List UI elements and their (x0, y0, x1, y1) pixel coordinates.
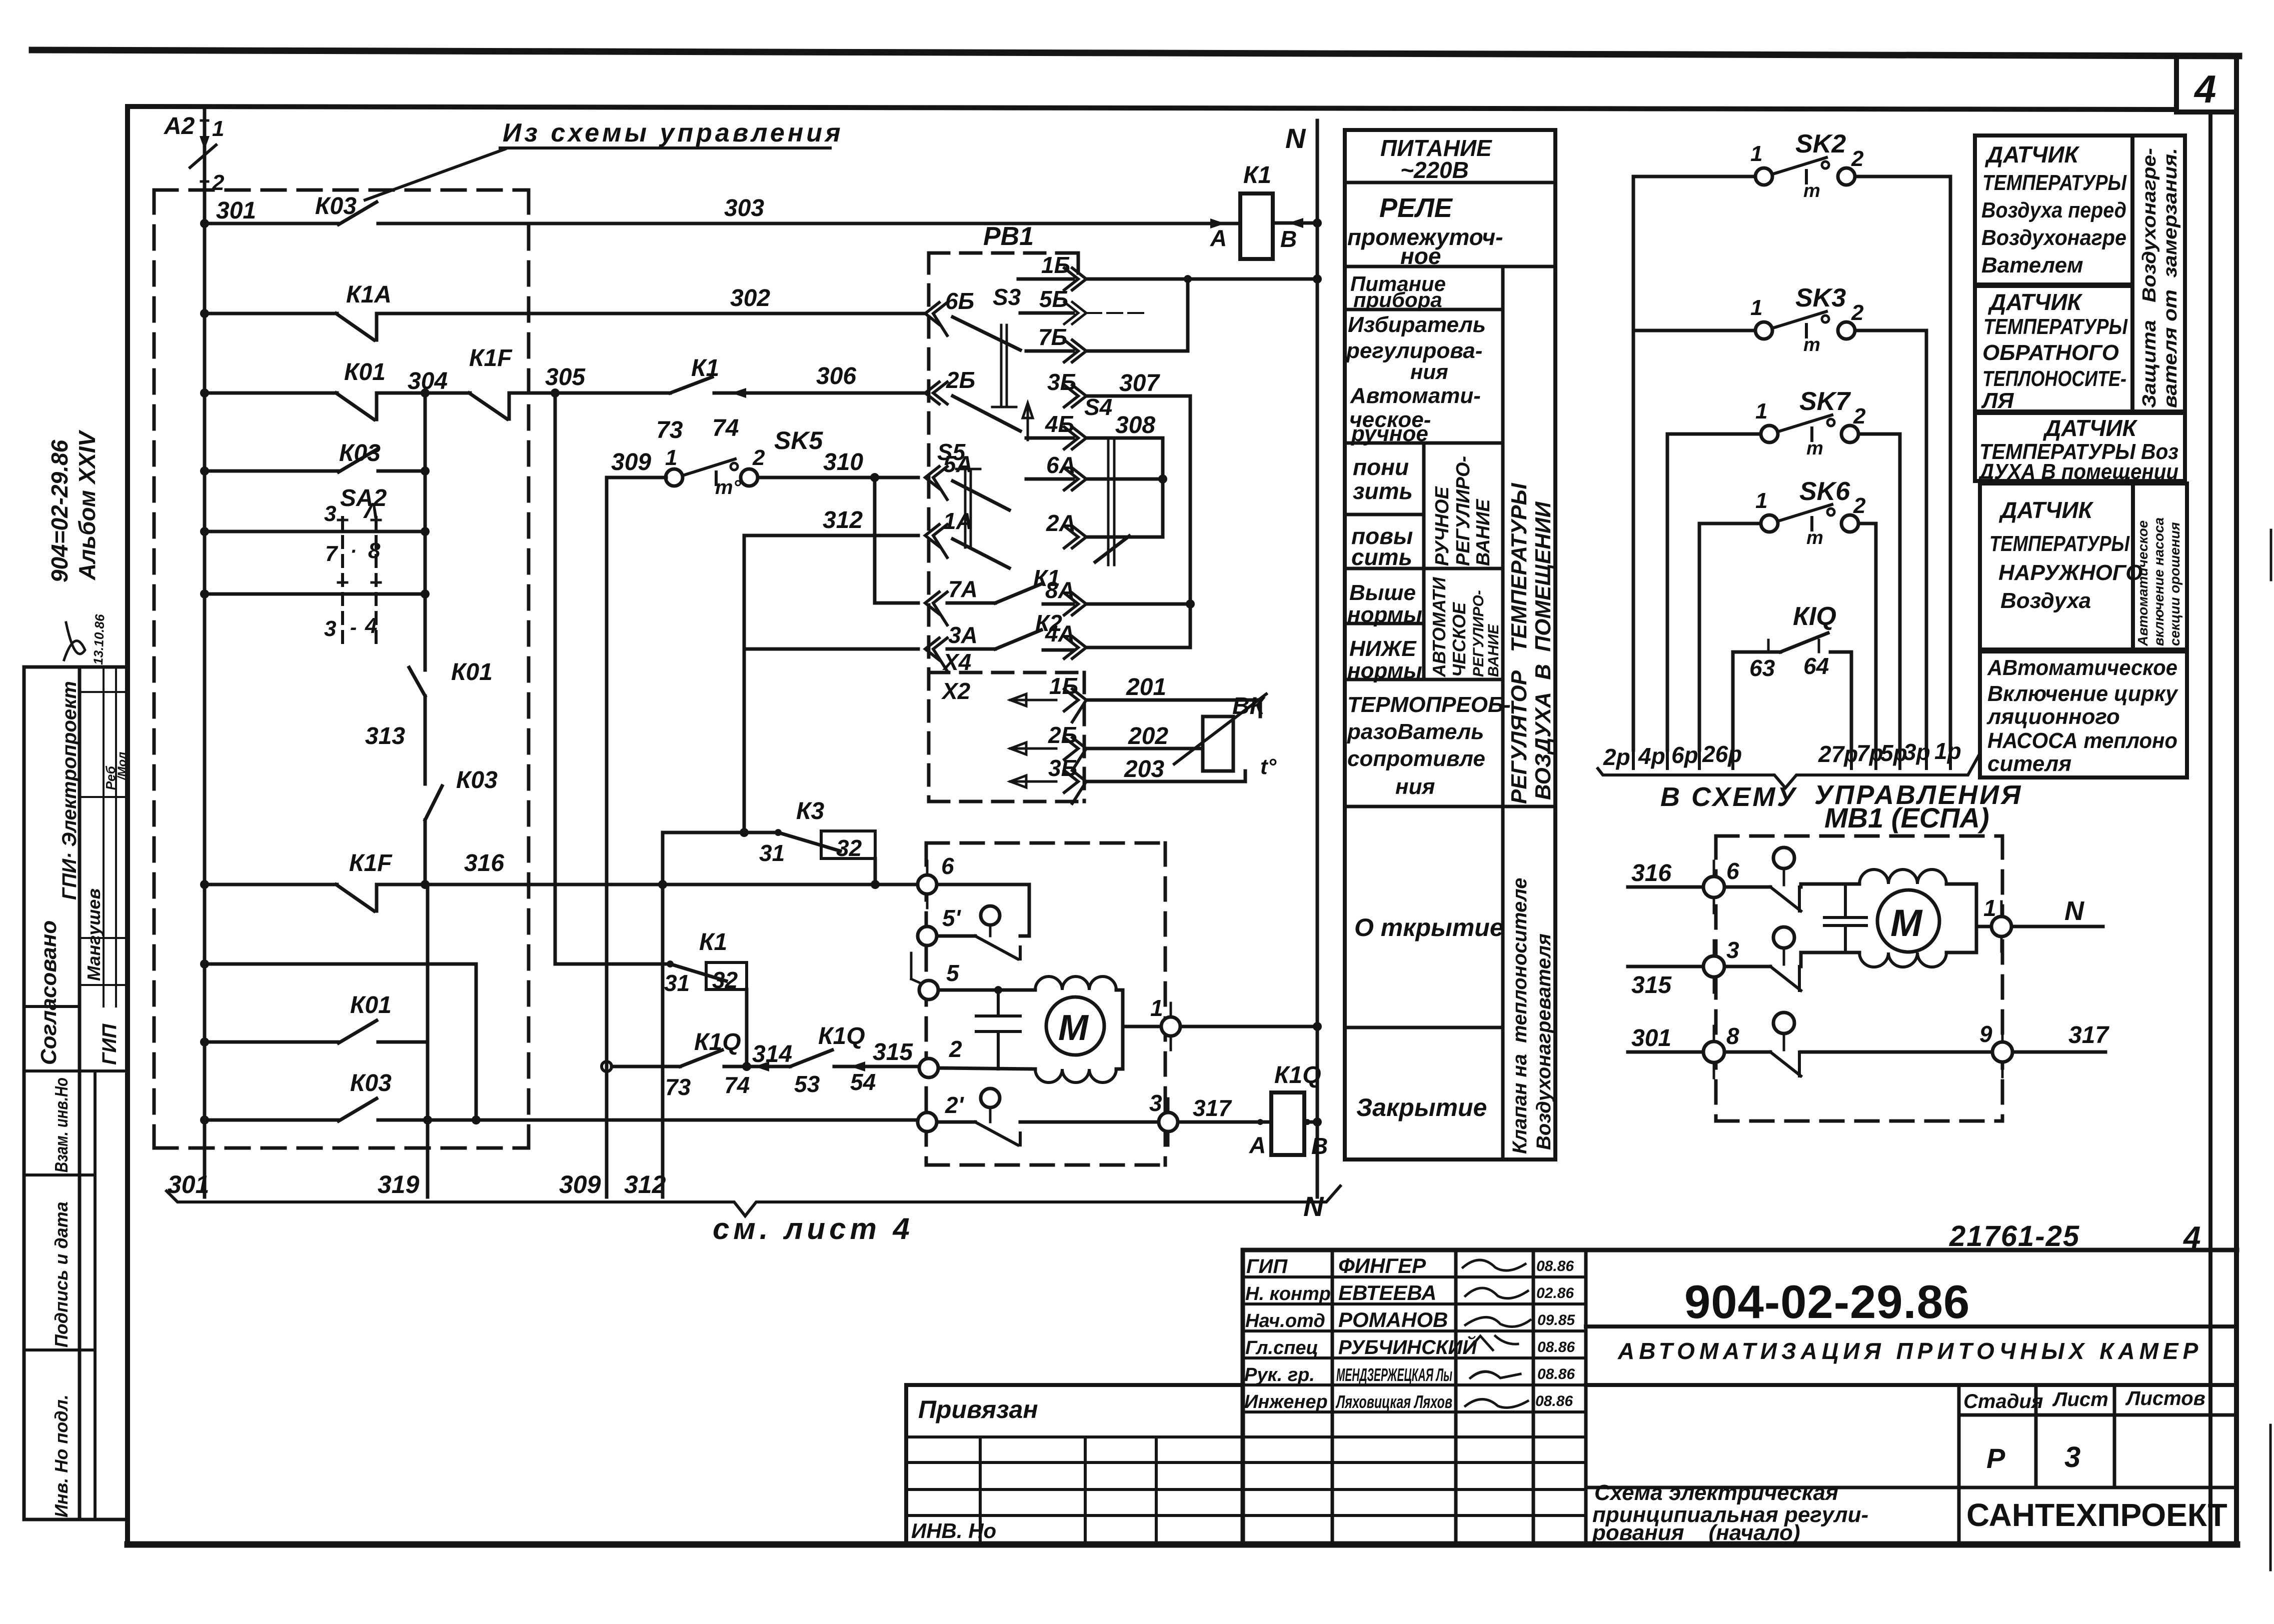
svg-text:203: 203 (1124, 756, 1164, 782)
svg-text:т°: т° (715, 476, 742, 498)
leader line to enclosure (365, 149, 505, 200)
winding top MV1 (1859, 869, 1946, 884)
svg-text:К1А: К1А (346, 281, 392, 308)
svg-text:пони: пони (1353, 454, 1409, 480)
svg-text:31: 31 (664, 970, 690, 996)
node N label bottom (1303, 1190, 1324, 1222)
thermal contact SK7 (1667, 432, 1761, 436)
svg-text:309: 309 (559, 1170, 601, 1198)
sensor box air before heater (1975, 135, 2132, 284)
svg-text:Избиратель: Избиратель (1348, 312, 1486, 337)
wire 308 loop (1086, 438, 1163, 537)
contact K03 row4 (339, 449, 377, 472)
svg-text:-: - (350, 616, 357, 638)
svg-text:Х2: Х2 (941, 678, 971, 704)
svg-text:8: 8 (368, 538, 381, 563)
connector 6B in (925, 302, 947, 335)
contact K1 7A-8A (947, 601, 995, 605)
svg-text:РВ1: РВ1 (983, 222, 1034, 251)
svg-text:ОБРАТНОГО: ОБРАТНОГО (1982, 340, 2119, 365)
svg-text:М: М (1058, 1008, 1089, 1048)
svg-text:Гл.спец: Гл.спец (1245, 1337, 1318, 1358)
svg-text:7А: 7А (948, 576, 978, 602)
svg-text:Схема электрическая: Схема электрическая (1594, 1480, 1838, 1505)
legend table frame (1345, 130, 1555, 1159)
svg-text:3Б: 3Б (1048, 755, 1077, 781)
wire row SA2 top (205, 530, 425, 533)
org name SANTEHPROEKT (1966, 1497, 2227, 1533)
svg-text:S4: S4 (1084, 394, 1112, 420)
schema name text (1592, 1480, 1868, 1545)
svg-text:рования (начало): рования (начало) (1592, 1520, 1800, 1545)
label iz shemy upravleniya (503, 118, 844, 147)
contact K1Q aux 63-64 (1733, 650, 1780, 654)
stamp margin signature (64, 622, 85, 660)
wire row 309-310 (607, 476, 666, 479)
connector 7A in (925, 592, 947, 625)
svg-text:64: 64 (1803, 653, 1829, 679)
svg-text:включение насоса: включение насоса (2151, 517, 2166, 646)
drawing frame top edge (128, 106, 2176, 109)
svg-text:309: 309 (611, 449, 651, 475)
terminal 9 MV1 (1992, 1042, 2012, 1062)
contact S3 (953, 317, 1020, 350)
svg-text:312: 312 (624, 1170, 666, 1198)
wire 317 (1178, 1120, 1271, 1124)
svg-text:SK5: SK5 (774, 426, 823, 454)
svg-text:сить: сить (1351, 544, 1412, 570)
svg-text:ЛЯ: ЛЯ (1981, 388, 2014, 413)
svg-text:ное: ное (1400, 243, 1441, 269)
terminal 1 MV1 (1976, 925, 1992, 928)
svg-text:вателя от замерзания.: вателя от замерзания. (2160, 148, 2181, 408)
svg-text:т: т (1806, 438, 1823, 459)
svg-text:1: 1 (1150, 995, 1163, 1021)
svg-text:нормы: нормы (1347, 602, 1422, 627)
svg-text:316: 316 (1631, 860, 1671, 886)
svg-text:ляционного: ляционного (1986, 704, 2120, 729)
svg-text:К1Q: К1Q (694, 1029, 741, 1055)
dashed enclosure left cabinet (154, 190, 529, 1148)
wire 6 loop (937, 884, 1029, 936)
wire row K1Q 314-315 (602, 1061, 612, 1071)
wire rail 312 lower (661, 832, 665, 1197)
stamp gip cell (24, 1006, 128, 1071)
svg-text:306: 306 (816, 363, 856, 389)
svg-text:ДАТЧИК: ДАТЧИК (1987, 289, 2083, 315)
lamp at 5prime (981, 906, 1000, 925)
svg-text:74: 74 (712, 415, 739, 441)
left margin doc number rotated (47, 429, 100, 582)
svg-text:Инженер: Инженер (1244, 1391, 1328, 1412)
svg-text:302: 302 (730, 285, 770, 311)
svg-text:РУБЧИНСКИЙ: РУБЧИНСКИЙ (1338, 1335, 1477, 1358)
svg-text:t°: t° (1260, 754, 1277, 779)
wire SK6 rails (1699, 523, 1876, 750)
svg-text:Н. контр: Н. контр (1245, 1283, 1331, 1304)
svg-text:S3: S3 (993, 284, 1021, 310)
title block outer (1243, 1248, 2237, 1252)
svg-text:S5: S5 (937, 439, 966, 465)
svg-text:МВ1 (ЕСПА): МВ1 (ЕСПА) (1824, 802, 1989, 833)
svg-text:ГПИ· Электропроект: ГПИ· Электропроект (59, 681, 81, 900)
svg-text:08.86: 08.86 (1536, 1258, 1574, 1274)
svg-text:32: 32 (836, 835, 862, 861)
wire row 316 (205, 883, 337, 886)
svg-text:ДУХА В помещении: ДУХА В помещении (1977, 459, 2178, 484)
wire coil A arrow (1210, 218, 1225, 228)
wire rail 319 (426, 1120, 430, 1197)
svg-text:Автоматическое: Автоматическое (2135, 520, 2150, 646)
wire row K01 bottom (205, 1040, 339, 1044)
svg-text:Привязан: Привязан (918, 1395, 1038, 1423)
svg-text:ДАТЧИК: ДАТЧИК (1984, 141, 2080, 167)
terminal ticks row (1633, 750, 1950, 768)
svg-text:7р: 7р (1856, 740, 1883, 766)
svg-text:Автомати-: Автомати- (1350, 383, 1481, 408)
sensor side col frost protection (2132, 135, 2185, 411)
svg-text:ЕВТЕЕВА: ЕВТЕЕВА (1338, 1281, 1436, 1304)
wire row 312 (744, 534, 918, 537)
svg-text:ния: ния (1395, 774, 1435, 799)
wire 8 to 9 MV1 (1801, 1050, 1993, 1054)
terminal 8 MV1 (1628, 1050, 1703, 1054)
arrow up marker (1023, 403, 1033, 440)
relay coil K1Q (1271, 1092, 1304, 1155)
svg-text:АВТОМАТИЗАЦИЯ ПРИТОЧНЫХ КАМЕР: АВТОМАТИЗАЦИЯ ПРИТОЧНЫХ КАМЕР (1617, 1338, 2202, 1364)
wire row 301 (205, 222, 339, 225)
connector 5B out (1020, 311, 1073, 315)
svg-text:НИЖЕ: НИЖЕ (1349, 636, 1417, 661)
svg-text:1: 1 (1755, 488, 1767, 513)
contact S5 lower blade (953, 539, 1009, 568)
capacitor C (976, 990, 1020, 1069)
svg-text:М: М (1890, 902, 1923, 944)
contact K3 31-32 (663, 831, 778, 834)
svg-text:сопротивле: сопротивле (1347, 746, 1485, 771)
svg-text:разоВатель: разоВатель (1347, 719, 1484, 744)
svg-text:ГИП: ГИП (1246, 1255, 1288, 1277)
thermal contact SK3 (1633, 329, 1755, 332)
lamp 3 MV1 (1773, 927, 1794, 948)
thermal contact SK5 (666, 469, 683, 486)
svg-text:РОМАНОВ: РОМАНОВ (1338, 1308, 1448, 1331)
terminal 3 (1159, 1112, 1178, 1131)
svg-text:Из схемы управления: Из схемы управления (503, 118, 844, 147)
contact K1Q 73-74 (680, 1050, 722, 1066)
svg-text:73: 73 (665, 1074, 691, 1100)
svg-text:1: 1 (212, 116, 224, 141)
svg-text:сителя: сителя (1987, 751, 2071, 776)
contact K1 73-74 (670, 377, 712, 393)
svg-text:Лист: Лист (2052, 1388, 2108, 1410)
svg-text:К03: К03 (456, 767, 498, 793)
right scan edge tick (2270, 530, 2271, 1570)
svg-text:Альбом XXIV: Альбом XXIV (74, 429, 100, 580)
svg-text:1: 1 (1755, 399, 1767, 423)
svg-text:2: 2 (1851, 146, 1864, 171)
thermal contact SK6 (1699, 522, 1761, 525)
svg-text:53: 53 (794, 1071, 820, 1097)
names table grid (1332, 1250, 1586, 1542)
connector 4A out (1064, 636, 1086, 658)
wire 3A feed (744, 647, 918, 651)
connector 4B out (1026, 436, 1073, 440)
wire row K1 31-32 feed (205, 964, 476, 1120)
wire SK2 right rail to 1p (1949, 176, 1952, 750)
svg-text:А: А (1249, 1132, 1266, 1158)
svg-text:2: 2 (1853, 404, 1866, 428)
svg-text:314: 314 (752, 1041, 792, 1067)
sheet top rule (32, 50, 2239, 56)
svg-text:ТЕПЛОНОСИТЕ-: ТЕПЛОНОСИТЕ- (1982, 366, 2126, 391)
contact K01 chain (409, 667, 425, 696)
lamp 8 MV1 (1773, 1012, 1794, 1033)
svg-text:Р: Р (1986, 1442, 2005, 1474)
wire 7B loop (1086, 279, 1188, 351)
svg-text:Включение цирку: Включение цирку (1987, 681, 2178, 706)
svg-text:В: В (1311, 1133, 1328, 1159)
wire SK3 right rail to 3p (1925, 330, 1928, 750)
capacitor MV1 (1824, 884, 1866, 952)
svg-text:08.86: 08.86 (1535, 1393, 1573, 1409)
svg-text:Воздухонагре: Воздухонагре (1981, 225, 2126, 250)
svg-text:904-02-29.86: 904-02-29.86 (1684, 1275, 1970, 1328)
svg-text:Мангушев: Мангушев (84, 888, 104, 981)
svg-text:К1: К1 (699, 929, 727, 955)
svg-text:·: · (350, 540, 357, 562)
svg-text:5Б: 5Б (1039, 286, 1068, 312)
svg-text:НАРУЖНОГО: НАРУЖНОГО (1998, 560, 2142, 585)
big doc number 904-02-29.86 (1684, 1275, 1970, 1328)
svg-text:ТЕРМОПРЕОБ-: ТЕРМОПРЕОБ- (1347, 692, 1511, 717)
contact K1Q 53-54 (790, 1050, 832, 1066)
regulator PB1 dashed box (929, 253, 1084, 801)
contact 5prime (937, 934, 975, 938)
svg-text:54: 54 (850, 1069, 876, 1095)
svg-text:SK7: SK7 (1799, 387, 1851, 416)
svg-text:К3: К3 (796, 798, 825, 824)
svg-text:09.85: 09.85 (1537, 1312, 1575, 1328)
svg-text:К03: К03 (315, 193, 357, 219)
wire 305 drop to K1 31-32 (555, 393, 670, 964)
svg-text:АВТОМАТИ: АВТОМАТИ (1429, 576, 1449, 677)
contact K1F row3 (469, 393, 509, 419)
connector 6A out (1026, 477, 1073, 481)
svg-text:ЧЕСКОЕ: ЧЕСКОЕ (1449, 602, 1469, 677)
svg-text:31: 31 (759, 840, 785, 866)
node X2 (941, 678, 971, 704)
wire row SA2 bottom (205, 592, 425, 596)
svg-text:1р: 1р (1934, 738, 1961, 764)
svg-text:МЕНДЗЕРЖЕЦКАЯ Лы: МЕНДЗЕРЖЕЦКАЯ Лы (1336, 1364, 1452, 1385)
svg-text:3А: 3А (948, 622, 978, 648)
switch SA2 (324, 485, 387, 641)
node 305 junction (551, 388, 560, 397)
svg-text:НАСОСА теплоно: НАСОСА теплоно (1987, 728, 2177, 753)
svg-text:4р: 4р (1638, 743, 1665, 769)
svg-text:305: 305 (545, 364, 586, 390)
svg-text:317: 317 (2068, 1022, 2109, 1048)
wire motor to terminal 1 (1123, 1025, 1161, 1028)
svg-text:63: 63 (1749, 655, 1775, 681)
svg-text:21761-25: 21761-25 (1949, 1220, 2080, 1252)
svg-text:Воздуха перед: Воздуха перед (1981, 198, 2126, 222)
svg-text:САНТЕХПРОЕКТ: САНТЕХПРОЕКТ (1966, 1497, 2227, 1533)
svg-text:А: А (1210, 225, 1227, 251)
terminal 5 (919, 980, 938, 999)
connector X2 3B (1010, 775, 1056, 787)
svg-text:ИНВ. Но: ИНВ. Но (911, 1519, 996, 1542)
svg-text:К03: К03 (350, 1070, 392, 1096)
svg-text:312: 312 (823, 507, 863, 533)
svg-text:2': 2' (945, 1092, 965, 1118)
winding bottom MV1 (1859, 952, 1946, 967)
svg-text:РЕГУЛЯТОР ТЕМПЕРАТУРЫ: РЕГУЛЯТОР ТЕМПЕРАТУРЫ (1507, 482, 1531, 804)
sensor side col pump irrigation (2133, 483, 2187, 649)
svg-text:ГИП: ГИП (99, 1023, 121, 1065)
contact 2prime (937, 1120, 975, 1124)
svg-text:SK2: SK2 (1795, 129, 1846, 158)
svg-text:74: 74 (724, 1072, 750, 1098)
stamp mangushev (84, 752, 129, 981)
svg-text:В СХЕМУ: В СХЕМУ (1660, 782, 1797, 812)
svg-text:регулирова-: регулирова- (1346, 338, 1482, 363)
contact S5 (953, 481, 1009, 510)
svg-text:ния: ния (1410, 360, 1448, 383)
wire 312 drop (743, 535, 746, 832)
svg-text:2Б: 2Б (1048, 722, 1077, 748)
svg-text:4А: 4А (1045, 620, 1075, 646)
contact 6 MV1 (1724, 885, 1770, 889)
svg-text:6: 6 (1726, 858, 1739, 884)
svg-text:/Мол: /Мол (116, 752, 129, 780)
svg-text:К1F: К1F (469, 345, 513, 371)
drawing frame bottom edge (128, 1541, 2237, 1548)
wire row 304-305-306 (205, 391, 337, 395)
svg-text:Инв. Но подл.: Инв. Но подл. (51, 1394, 72, 1517)
svg-text:Взам. инв.Но: Взам. инв.Но (51, 1077, 72, 1172)
svg-text:8А: 8А (1045, 577, 1075, 603)
svg-text:К1F: К1F (349, 850, 393, 876)
svg-text:73: 73 (656, 417, 683, 443)
bus break mark (190, 145, 216, 167)
svg-text:1А: 1А (943, 508, 973, 534)
svg-text:N: N (1285, 122, 1306, 154)
svg-text:Ляховицкая Ляхов: Ляховицкая Ляхов (1335, 1391, 1452, 1412)
svg-text:316: 316 (464, 850, 504, 876)
svg-text:1: 1 (1750, 295, 1762, 320)
svg-text:301: 301 (168, 1170, 209, 1198)
thermal contact SK2 (1633, 175, 1755, 178)
svg-text:08.86: 08.86 (1537, 1339, 1575, 1355)
svg-text:Стадия: Стадия (1963, 1390, 2043, 1412)
privyazan box (906, 1385, 1243, 1542)
svg-text:27р: 27р (1818, 741, 1858, 767)
svg-text:ДАТЧИК: ДАТЧИК (1998, 497, 2094, 523)
svg-text:315: 315 (1631, 972, 1672, 998)
svg-text:315: 315 (873, 1039, 913, 1065)
svg-text:3Б: 3Б (1047, 369, 1076, 395)
contact K03 row301 (339, 202, 377, 224)
terminal 6 (918, 875, 937, 894)
drawing frame inner right edge (2208, 112, 2212, 1544)
svg-text:5': 5' (942, 905, 962, 931)
wire 310 drop to 7A (875, 477, 918, 603)
svg-text:6А: 6А (1046, 452, 1076, 478)
node N label top (1285, 122, 1306, 154)
motor winding bottom (1035, 1069, 1116, 1082)
connector 7B out (1026, 349, 1073, 353)
svg-text:2Б: 2Б (946, 367, 975, 393)
contact S link 2B-4B (953, 396, 1020, 431)
valve drive dashed box (926, 843, 1165, 1165)
svg-text:201: 201 (1126, 674, 1166, 700)
svg-text:т: т (1806, 527, 1823, 548)
wire SK2 left rail to 2p (1632, 176, 1635, 750)
drawing frame outer right edge (2234, 57, 2239, 1544)
svg-text:ВАНИЕ: ВАНИЕ (1485, 624, 1502, 677)
drawing frame left edge (125, 106, 130, 1544)
actuator MV1 dashed box (1716, 836, 2002, 1121)
connector X2 1B (1010, 694, 1056, 706)
svg-text:8: 8 (1726, 1023, 1739, 1049)
svg-text:Подпись и дата: Подпись и дата (51, 1201, 72, 1347)
svg-text:Выше: Выше (1349, 580, 1416, 605)
svg-text:319: 319 (378, 1170, 420, 1198)
stage sheet cells (1959, 1385, 2114, 1542)
wire bus left power rail (203, 109, 207, 1197)
svg-text:A2: A2 (164, 113, 195, 139)
bottom wire labels (168, 1170, 666, 1198)
wire row K03 bottom / 2prime feed (205, 1118, 339, 1122)
wire motor top MV1 (1801, 884, 1859, 887)
contact K2 3A-4A (947, 647, 995, 651)
svg-text:О ткрытие: О ткрытие (1354, 913, 1504, 941)
svg-text:нормы: нормы (1347, 658, 1422, 683)
svg-text:SK6: SK6 (1799, 477, 1850, 506)
wire row 5 (938, 988, 1035, 992)
bus junction dots (200, 219, 209, 228)
svg-text:1: 1 (665, 445, 677, 470)
terminal 3 MV1 (1628, 965, 1703, 968)
svg-text:см. лист 4: см. лист 4 (713, 1212, 914, 1245)
see sheet 4 brace (167, 1186, 1340, 1216)
svg-text:26р: 26р (1702, 741, 1742, 767)
svg-text:1: 1 (1750, 141, 1762, 166)
svg-text:~220В: ~220В (1400, 157, 1469, 183)
stamp vzam text (51, 1077, 72, 1517)
contact K1 31-32 (670, 964, 726, 981)
wire motor bottom MV1 (1801, 952, 1859, 966)
svg-text:Закрытие: Закрытие (1356, 1093, 1487, 1121)
lamp 6 MV1 (1773, 847, 1794, 868)
svg-text:2: 2 (949, 1036, 962, 1062)
wire N bus (1316, 120, 1319, 1197)
svg-text:Вателем: Вателем (1981, 253, 2083, 277)
svg-text:6р: 6р (1671, 742, 1698, 768)
svg-text:2: 2 (1853, 493, 1866, 518)
stamp soglasovano rotated (37, 681, 81, 1065)
svg-text:303: 303 (724, 195, 764, 221)
svg-text:904=02-29.86: 904=02-29.86 (47, 439, 73, 582)
svg-text:Защита Воздухонагре-: Защита Воздухонагре- (2139, 148, 2160, 408)
svg-text:К03: К03 (339, 440, 381, 466)
connector 8A out (1064, 593, 1086, 615)
lamp at 2prime (981, 1088, 1000, 1107)
contact K01 (336, 393, 377, 419)
contact K1F bottom (336, 884, 377, 911)
